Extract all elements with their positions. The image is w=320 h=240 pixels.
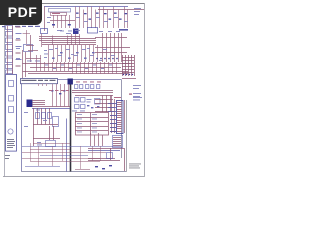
wire: left mid rail [23,35,42,78]
diode D20 row [75,85,100,89]
diode D8 filled [73,29,79,35]
label block right top [119,29,128,31]
wire: lower block left edge [21,83,23,171]
capacitor C40 in connector column [9,81,14,113]
wire: bus crossing verticals [42,34,80,48]
wire: live rail L [44,7,46,32]
wire: horizontal bus mid [23,64,131,74]
resistor R30 labels cluster [72,99,92,111]
wire: standby rail beside divider [66,119,68,172]
capacitor C70 marks lower-right [95,165,112,169]
wire: lower-right rungs [88,148,125,171]
PDF badge [0,0,42,25]
resistor R22 labels lower-left [24,110,47,146]
capacitor C1 tick marks upper [52,13,127,26]
wire: right grid verticals [112,95,115,133]
op-amp U1 regulator IC [27,100,33,108]
capacitor C8 labels left [16,38,40,61]
diode D5 tick marks comb [52,52,95,59]
resistor R40 value marks [49,90,69,91]
capacitor CY1 [6,58,22,63]
connector CN3 [117,101,124,134]
relay RY2 [24,45,33,52]
wire: verticals above CN4 [91,133,103,146]
capacitor C22 labels scattered [47,17,102,61]
wire: lower block right edge [121,80,123,159]
section header label bar [21,79,58,84]
wire: input ladder rails [8,26,13,75]
note text block [7,139,15,148]
node dots on connector [123,74,133,75]
transistor Q7 [107,153,113,159]
wire: right grid rungs [95,100,116,132]
capacitor C2 labels mid-top [57,30,120,34]
wire: secondary output rails [72,91,113,96]
wire: comb mid section [37,55,117,74]
wire: title column edge [126,100,128,172]
resistor R12 labels comb [44,49,115,58]
wire: bottom harness verticals [31,143,101,169]
lamp LP1 [8,129,13,134]
wire: primary DC bus bundle [39,37,130,53]
resistor column labels right [129,85,142,100]
connector CN2 pin grid [122,55,136,79]
relay RY1 nested outline [49,9,71,16]
wire: AC input top bus [44,7,144,10]
thermistor TH1 [6,65,21,69]
bridge rectifier BD1 [41,28,98,34]
capacitor C60 cluster [75,98,101,109]
table: voltage chart [75,113,109,136]
diode D20 row labels [76,81,101,84]
transistor Q3 [46,141,56,147]
wire: standby verticals below bar [53,84,69,107]
node junction dots [96,58,118,60]
wire: snubber comb lower [49,45,98,62]
wire: lower block top edge [57,79,121,81]
line filter LF1 [6,32,22,37]
title block text [129,164,141,169]
wire: IC fan-out [32,101,70,109]
red text in relay RY1 [52,13,60,14]
wire: right column verticals [124,100,126,133]
varistor VR1 [6,70,13,74]
wire: lower-left verticals [34,108,50,146]
heavy bus: chassis divider [68,79,73,172]
wire: bottom harness horizontals [22,144,121,170]
capacitor CX1 [6,38,21,43]
wire: header bar pins [39,84,47,87]
capacitor CX2 [6,52,21,57]
line filter LF2 [6,45,22,50]
wire: primary comb upper [50,7,128,29]
ground symbol bottom left [5,155,10,159]
capacitor C15 label row mid [37,61,112,69]
capacitor C62 marks [87,105,99,108]
wire: lower-left rungs [33,125,60,141]
connector CN1 housing [6,75,17,152]
wire: secondary verticals right [103,33,122,62]
table cell labels [77,114,97,132]
connector CN3 label [114,97,121,98]
wire: CN3 pin stubs [108,104,116,132]
sheet [3,4,145,177]
connector CN4 [113,136,123,148]
fuse F1 [6,26,21,30]
wire: lower block bottom edge [21,171,126,173]
node labels under badge [2,26,40,27]
capacitor C42 marks below bar [51,90,65,94]
resistor R1 labels upper [76,8,141,22]
capacitor C50 row [36,113,59,127]
wire: relay feed [23,30,31,44]
wire: mid verticals right of cluster [103,95,111,112]
